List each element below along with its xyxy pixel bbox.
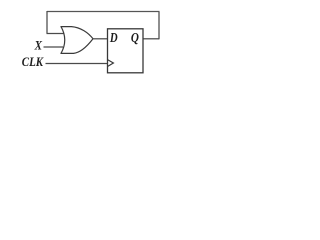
wire: feedback top horizontal segment (47, 11, 160, 13)
svg-text:X: X (34, 39, 43, 53)
svg-text:CLK: CLK (22, 55, 45, 69)
wire: Q output from flip-flop right edge (143, 38, 159, 40)
wire: feedback right vertical segment (158, 12, 160, 40)
svg-text:Q: Q (131, 31, 139, 46)
wire: CLK to flip-flop clock input (46, 63, 108, 65)
clock edge-trigger triangle (108, 60, 114, 67)
wire: feedback into OR gate top input (47, 33, 64, 35)
svg-text:D: D (109, 31, 118, 46)
or-gate G1 (61, 27, 93, 54)
d-flip-flop U1 box (108, 29, 144, 73)
wire: X input to OR gate (44, 46, 64, 48)
wire: feedback left vertical segment (46, 11, 48, 34)
wire: OR gate output to D input (93, 38, 108, 40)
